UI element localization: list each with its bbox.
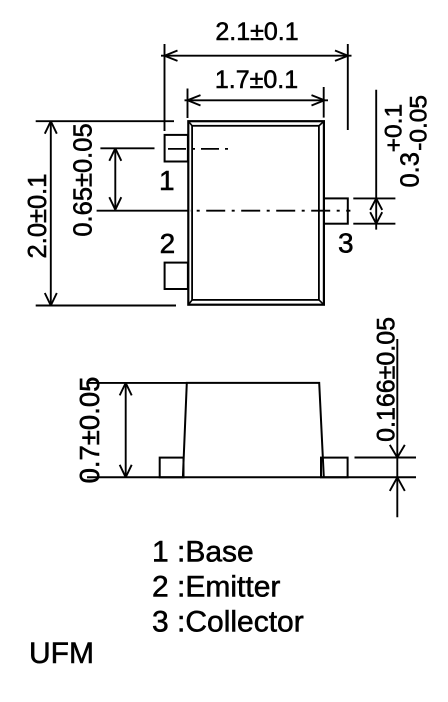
- svg-text:2 :Emitter: 2 :Emitter: [152, 571, 280, 604]
- pin 1: [165, 135, 188, 162]
- dimension line 0.166 vertical: [390, 339, 405, 517]
- side view body trapezoid: [183, 383, 324, 477]
- dimension line 2.0 vertical: [45, 121, 57, 305]
- svg-text:1: 1: [159, 165, 175, 196]
- package body inner outline: [192, 126, 319, 300]
- dimension 0.7 top extension line: [87, 382, 187, 384]
- package body outer outline: [188, 121, 324, 305]
- svg-text:2.1±0.1: 2.1±0.1: [215, 18, 298, 46]
- svg-text:0.7±0.05: 0.7±0.05: [74, 377, 105, 484]
- dimension line 0.7 vertical: [120, 383, 132, 477]
- svg-text:3: 3: [338, 228, 354, 259]
- side view bottom seating line: [87, 476, 416, 478]
- main horizontal centerline dash-dot part: [190, 210, 350, 212]
- svg-text:0.65±0.05: 0.65±0.05: [70, 123, 98, 236]
- dimension 0.3 top extension line: [353, 197, 395, 199]
- dimension line 0.3 vertical: [370, 90, 382, 230]
- extension line 2.1 left: [164, 44, 166, 131]
- dimension line 1.7: [185, 95, 329, 105]
- svg-text:2: 2: [160, 228, 176, 259]
- side view right lead: [321, 458, 348, 478]
- svg-text:2.0±0.1: 2.0±0.1: [24, 174, 52, 259]
- extension line 1.7 left: [187, 89, 189, 119]
- dimension 0.65 top extension line: [100, 147, 154, 149]
- pin 3: [324, 198, 348, 223]
- side view left lead: [160, 458, 184, 478]
- dimension 0.166 top extension line: [355, 457, 417, 459]
- svg-text:-0.05: -0.05: [405, 95, 432, 151]
- main horizontal centerline solid part: [97, 210, 189, 212]
- svg-text:0.3: 0.3: [396, 152, 424, 187]
- dimension line 2.1: [161, 51, 352, 61]
- extension line 2.1 right: [347, 44, 349, 130]
- dimension line 0.65 vertical: [109, 148, 121, 209]
- dimension 2.0 top extension line: [36, 120, 174, 122]
- svg-text:1.7±0.1: 1.7±0.1: [215, 66, 298, 94]
- body corner chamfers: [189, 122, 324, 305]
- svg-text:1 :Base: 1 :Base: [152, 536, 254, 569]
- svg-text:0.166±0.05: 0.166±0.05: [373, 317, 401, 442]
- svg-text:+0.1: +0.1: [381, 104, 408, 152]
- centerline through pin 1: [168, 148, 228, 150]
- pin 2: [165, 263, 188, 289]
- svg-text:UFM: UFM: [29, 637, 94, 670]
- dimension 2.0 bottom extension line: [36, 305, 176, 307]
- dimension 0.3 bottom extension line: [353, 223, 395, 225]
- extension line 1.7 right: [323, 87, 325, 118]
- svg-text:3 :Collector: 3 :Collector: [152, 606, 304, 639]
